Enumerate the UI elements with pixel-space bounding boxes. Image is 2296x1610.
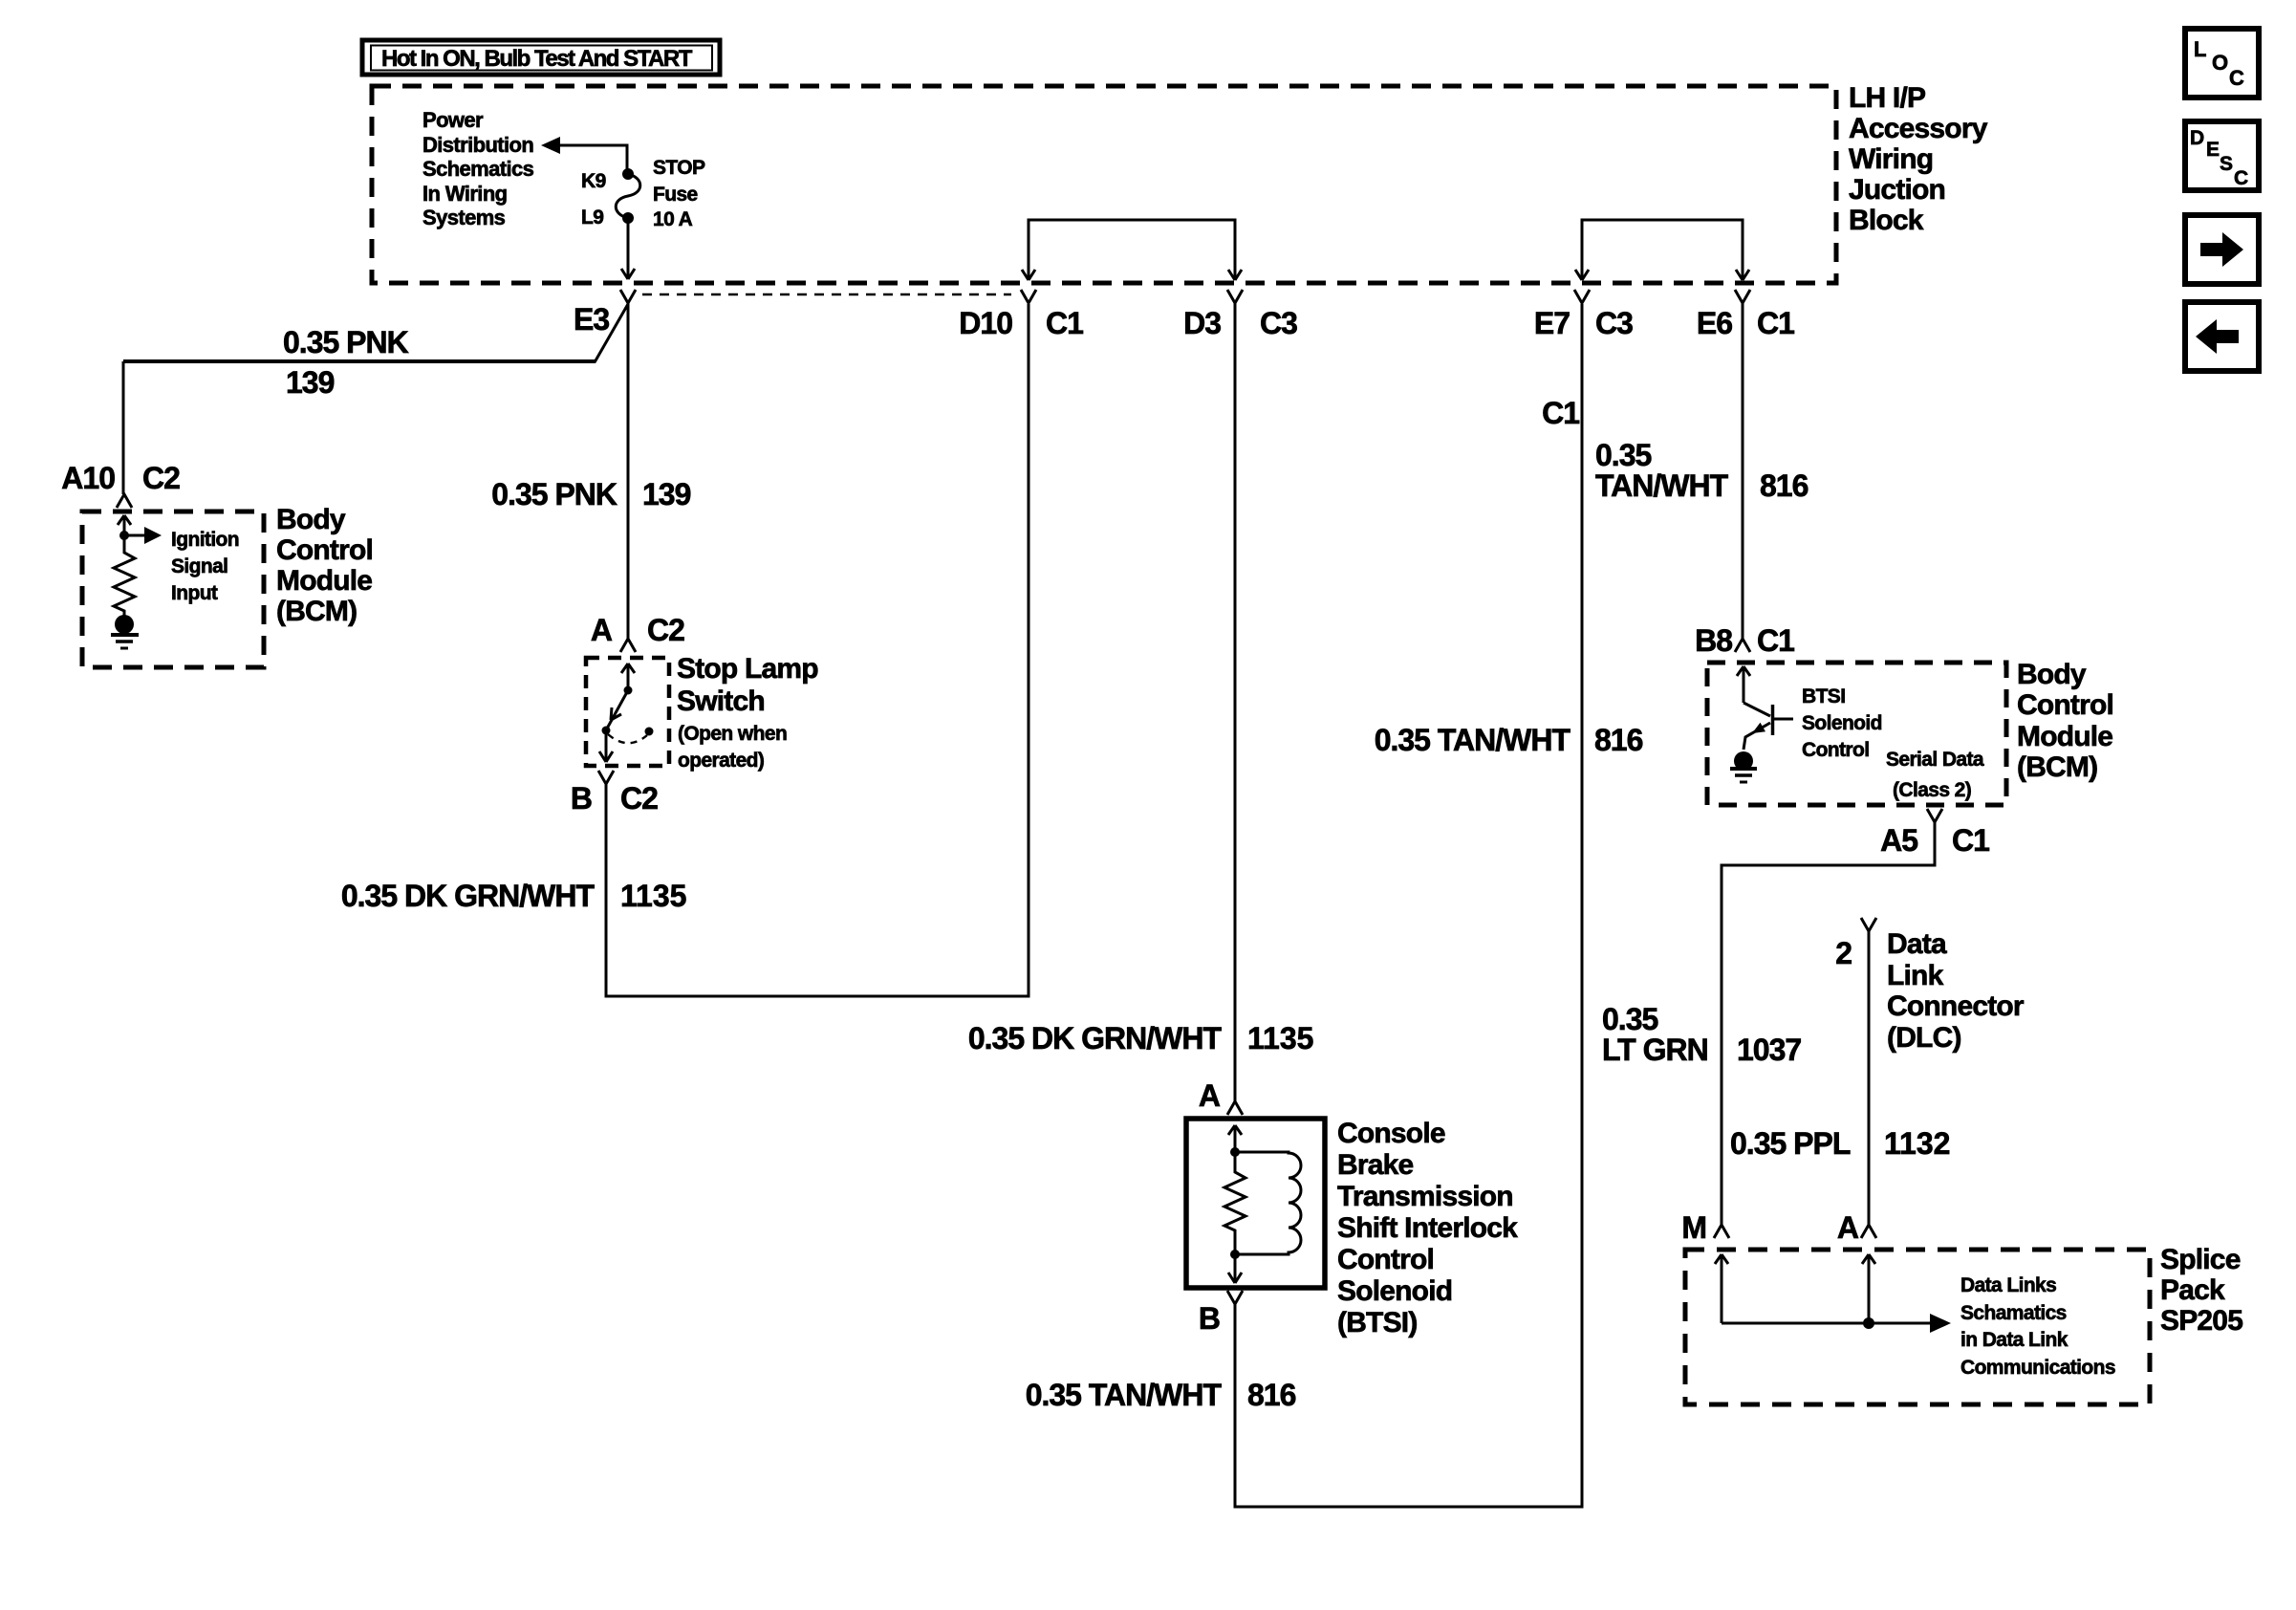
wire: E6 down to BCM B8 [1742, 303, 1744, 639]
svg-text:Systems: Systems [422, 206, 506, 229]
svg-text:Splice: Splice [2160, 1244, 2241, 1275]
label: Splice Pack SP205 [2160, 1244, 2242, 1337]
connector fork A (BTSI) [1227, 1101, 1243, 1115]
svg-text:0.35 PPL: 0.35 PPL [1730, 1126, 1851, 1161]
svg-text:1135: 1135 [620, 879, 686, 913]
wire: diagonal from PNK run up to E3 [595, 304, 628, 362]
svg-text:C: C [2234, 167, 2248, 189]
svg-text:Control: Control [276, 534, 373, 566]
splice bus wire to data links reference [1722, 1322, 1933, 1325]
connector fork A5 [1927, 809, 1942, 822]
connector fork A / C2 [620, 639, 636, 652]
svg-text:operated): operated) [678, 750, 764, 772]
LOC icon box [2185, 29, 2259, 98]
svg-text:Console: Console [1337, 1118, 1445, 1149]
svg-text:E6: E6 [1697, 306, 1732, 340]
wire: feed from fuse K9 to power distribution arrow [558, 145, 627, 173]
arrow down at junction block edge above E3 [621, 269, 635, 279]
junction block internal bus loop E7-E6 [1582, 220, 1743, 279]
connector fork B (BTSI) [1227, 1291, 1243, 1304]
label: Power Distribution Schematics In Wiring Systems [422, 108, 534, 229]
svg-text:Connector: Connector [1887, 990, 2025, 1022]
svg-text:C3: C3 [1260, 306, 1297, 340]
svg-text:D10: D10 [959, 306, 1012, 340]
wire label 0.35 TAN/WHT (E6 wire) [1595, 438, 1729, 503]
Stop Lamp Switch dashed box [586, 658, 669, 766]
svg-text:Schamatics: Schamatics [1960, 1302, 2067, 1324]
left-arrow icon box [2185, 302, 2259, 371]
svg-text:SP205: SP205 [2160, 1305, 2242, 1337]
wire: 0.35 PNK 139 horizontal run to BCM [123, 359, 596, 363]
svg-text:LH I/P: LH I/P [1849, 82, 1925, 114]
label: BTSI Solenoid Control [1802, 685, 1882, 761]
label: Stop Lamp Switch [677, 653, 818, 772]
arrow down at D3 [1228, 270, 1242, 280]
connector fork D3 [1227, 290, 1243, 303]
wire: D3 down to BTSI solenoid A [1234, 303, 1237, 1101]
svg-text:Communications: Communications [1960, 1357, 2115, 1379]
svg-text:0.35: 0.35 [1602, 1002, 1657, 1036]
svg-text:D3: D3 [1183, 306, 1221, 340]
wire: BCM A5 down-left-down to splice M [1722, 822, 1935, 1225]
svg-text:Ignition: Ignition [171, 529, 239, 551]
dashed arc: open when operated travel [608, 734, 647, 743]
svg-text:BTSI: BTSI [1802, 685, 1845, 707]
svg-text:Solenoid: Solenoid [1802, 712, 1882, 734]
label: Console Brake Transmission Shift Interlock Control Solenoid (BTSI) [1337, 1118, 1518, 1338]
node dot ignition signal [119, 531, 129, 540]
arrow up into BCM at A10 [118, 515, 131, 535]
svg-text:L: L [2194, 37, 2206, 61]
svg-text:Block: Block [1849, 205, 1924, 236]
svg-text:STOP: STOP [653, 157, 705, 179]
connector fork A (splice) [1861, 1225, 1876, 1238]
svg-text:(BCM): (BCM) [2017, 751, 2097, 783]
svg-text:816: 816 [1760, 468, 1809, 503]
label: Data Link Connector (DLC) [1887, 928, 2025, 1054]
svg-text:O: O [2212, 51, 2228, 75]
Body Control Module (BCM) dashed box right [1707, 663, 2006, 805]
value label: STOP Fuse 10 A [653, 157, 705, 230]
svg-text:0.35 DK GRN/WHT: 0.35 DK GRN/WHT [968, 1021, 1223, 1055]
svg-text:B8: B8 [1695, 623, 1732, 658]
svg-text:Data Links: Data Links [1960, 1274, 2056, 1296]
svg-text:S: S [2220, 153, 2233, 175]
switch blade with arrowhead [607, 690, 628, 729]
svg-text:E7: E7 [1534, 306, 1570, 340]
arrow up inside BTSI [1228, 1125, 1242, 1152]
svg-text:C2: C2 [620, 781, 658, 816]
svg-text:139: 139 [286, 365, 335, 400]
label: Ignition Signal Input [171, 529, 239, 604]
svg-text:Module: Module [276, 565, 372, 597]
switch contact dot (closed) [602, 727, 611, 735]
LH I/P Accessory Wiring Juction Block dashed box [372, 86, 1836, 283]
svg-text:0.35: 0.35 [1595, 438, 1651, 472]
Splice Pack SP205 dashed box [1685, 1250, 2150, 1404]
svg-text:C1: C1 [1952, 823, 1989, 858]
coil (BTSI solenoid winding) [1235, 1152, 1301, 1254]
svg-text:B: B [571, 781, 592, 816]
svg-text:816: 816 [1594, 723, 1643, 757]
ground splice dot [115, 615, 134, 634]
svg-text:LT GRN: LT GRN [1602, 1033, 1708, 1067]
svg-text:1037: 1037 [1737, 1033, 1801, 1067]
svg-text:C: C [2229, 66, 2244, 90]
svg-text:D: D [2190, 127, 2204, 149]
svg-text:Fuse: Fuse [653, 184, 698, 206]
svg-text:C1: C1 [1542, 396, 1579, 430]
wire: fuse L9 down to E3 [627, 218, 630, 278]
label: Body Control Module (BCM) right [2017, 659, 2113, 783]
right-arrow icon box [2185, 215, 2259, 284]
BTSI solenoid driver symbol [1744, 703, 1793, 750]
connector fork E6 [1735, 290, 1750, 303]
svg-text:Switch: Switch [677, 685, 765, 717]
svg-text:C2: C2 [142, 461, 180, 495]
thin dashed line from E3 to D10 (in-line boundary) [642, 294, 1011, 295]
svg-text:Wiring: Wiring [1849, 143, 1933, 175]
svg-text:Brake: Brake [1337, 1149, 1414, 1181]
svg-text:A: A [1199, 1078, 1221, 1113]
svg-text:0.35 TAN/WHT: 0.35 TAN/WHT [1375, 723, 1571, 757]
svg-text:Body: Body [2017, 659, 2087, 690]
svg-text:0.35 PNK: 0.35 PNK [283, 325, 409, 359]
title box: Hot In ON, Bulb Test And START [362, 40, 720, 75]
svg-text:A5: A5 [1880, 823, 1917, 858]
svg-text:C2: C2 [647, 613, 684, 647]
wire: E3 down to stop lamp switch A [627, 303, 630, 639]
svg-text:1132: 1132 [1884, 1126, 1950, 1161]
svg-text:C1: C1 [1757, 623, 1794, 658]
label: LH I/P Accessory Wiring Juction Block [1849, 82, 1988, 236]
svg-text:Signal: Signal [171, 555, 227, 577]
switch pivot dot [624, 686, 633, 695]
splice junction dot [1863, 1317, 1874, 1329]
svg-text:(Class 2): (Class 2) [1893, 779, 1971, 801]
svg-text:K9: K9 [581, 170, 606, 192]
connector fork 2 (DLC) [1861, 918, 1876, 931]
svg-text:816: 816 [1247, 1378, 1296, 1412]
svg-text:2: 2 [1835, 936, 1852, 970]
svg-text:E3: E3 [574, 302, 609, 337]
ground symbol (BCM) [111, 635, 139, 648]
arrow down at E6 [1736, 270, 1749, 280]
label: Serial Data (Class 2) [1886, 749, 1984, 801]
svg-text:E: E [2206, 139, 2220, 161]
connector fork B / C2 [598, 771, 614, 784]
DESC icon box [2185, 121, 2259, 190]
fuse STOP 10A (S-curve symbol with terminal dots) [616, 168, 640, 224]
svg-text:Stop Lamp: Stop Lamp [677, 653, 818, 685]
svg-text:10 A: 10 A [653, 208, 693, 230]
ground splice dot (BCM right) [1734, 751, 1753, 771]
svg-text:Pack: Pack [2160, 1274, 2225, 1306]
wire: DLC pin 2 down to splice A [1868, 931, 1871, 1225]
svg-text:Module: Module [2017, 721, 2112, 752]
svg-text:Control: Control [2017, 689, 2113, 721]
arrowhead pointing left at Power Distribution [541, 137, 560, 154]
wire: switch B down, right, and up to junction D10 [606, 304, 1029, 996]
svg-text:M: M [1681, 1210, 1706, 1245]
svg-text:Solenoid: Solenoid [1337, 1275, 1452, 1307]
connector fork E3 [620, 290, 636, 303]
svg-text:Hot In ON, Bulb Test And START: Hot In ON, Bulb Test And START [381, 46, 693, 72]
connector fork A10 [117, 494, 132, 508]
wire label 0.35 LT GRN (1037) [1602, 1002, 1708, 1067]
label: Body Control Module (BCM) left [276, 504, 373, 627]
arrow down at D10 [1022, 270, 1035, 280]
node dot BTSI top [1230, 1147, 1240, 1157]
arrow up inside splice at M [1715, 1254, 1728, 1323]
Body Control Module (BCM) dashed box left [82, 511, 264, 667]
resistor (BTSI internal) [1224, 1152, 1245, 1254]
svg-text:A: A [1837, 1210, 1859, 1245]
svg-text:(Open when: (Open when [678, 723, 787, 745]
svg-text:Power: Power [422, 108, 484, 132]
svg-text:A: A [591, 613, 613, 647]
resistor (ignition input pull-down) [114, 535, 135, 616]
arrowhead: to Data Links Schematics [1930, 1314, 1951, 1333]
connector fork E7 [1574, 290, 1590, 303]
svg-text:Shift Interlock: Shift Interlock [1337, 1212, 1518, 1244]
connector fork D10 [1021, 290, 1036, 303]
svg-text:C1: C1 [1757, 306, 1794, 340]
svg-text:(BCM): (BCM) [276, 596, 357, 627]
connector fork B8 [1735, 639, 1750, 652]
node dot BTSI bottom [1230, 1250, 1240, 1259]
svg-text:Data: Data [1887, 928, 1947, 960]
svg-text:139: 139 [642, 477, 691, 511]
svg-text:Transmission: Transmission [1337, 1181, 1513, 1212]
svg-text:Body: Body [276, 504, 346, 535]
junction block internal bus loop D10-D3 [1029, 220, 1235, 279]
wire: BTSI B down, right, up to E7 [1235, 304, 1582, 1507]
arrow up into BCM at B8 [1737, 666, 1750, 703]
svg-text:TAN/WHT: TAN/WHT [1595, 468, 1729, 503]
svg-text:0.35 PNK: 0.35 PNK [491, 477, 617, 511]
arrow down at E7 [1575, 270, 1589, 280]
svg-text:0.35 DK GRN/WHT: 0.35 DK GRN/WHT [341, 879, 596, 913]
svg-text:L9: L9 [581, 207, 603, 228]
svg-text:Distribution: Distribution [422, 133, 533, 157]
svg-text:(BTSI): (BTSI) [1337, 1307, 1418, 1338]
svg-text:Accessory: Accessory [1849, 113, 1988, 144]
arrow right to Ignition Signal Input [124, 527, 162, 544]
svg-text:C1: C1 [1046, 306, 1083, 340]
svg-text:A10: A10 [61, 461, 115, 495]
svg-text:Serial Data: Serial Data [1886, 749, 1984, 771]
svg-text:Juction: Juction [1849, 174, 1945, 206]
svg-text:B: B [1199, 1301, 1220, 1336]
wire: down to BCM A10 [122, 361, 125, 494]
svg-text:Schematics: Schematics [422, 157, 534, 181]
svg-text:Control: Control [1802, 739, 1869, 761]
svg-text:C3: C3 [1595, 306, 1633, 340]
label: Data Links Schamatics in Data Link Communications [1960, 1274, 2115, 1379]
arrow up inside splice at A [1862, 1254, 1875, 1323]
svg-text:In Wiring: In Wiring [422, 182, 508, 206]
arrow down inside BTSI [1228, 1254, 1242, 1283]
switch alternate contact dot [645, 728, 654, 736]
svg-text:in Data Link: in Data Link [1960, 1329, 2069, 1351]
arrow up inside switch box [621, 664, 635, 690]
svg-text:Link: Link [1887, 960, 1944, 991]
arrow down to switch terminal B [599, 730, 613, 762]
svg-text:Input: Input [171, 582, 218, 604]
svg-text:Control: Control [1337, 1244, 1434, 1275]
connector fork M [1714, 1225, 1729, 1238]
ground symbol (BCM right) [1730, 769, 1757, 782]
svg-text:(DLC): (DLC) [1887, 1022, 1961, 1054]
svg-text:0.35 TAN/WHT: 0.35 TAN/WHT [1026, 1378, 1223, 1412]
BTSI solenoid box [1186, 1119, 1325, 1288]
svg-text:1135: 1135 [1247, 1021, 1313, 1055]
